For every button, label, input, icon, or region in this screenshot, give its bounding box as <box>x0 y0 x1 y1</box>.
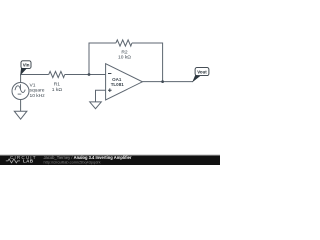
svg-text:LAB: LAB <box>23 159 34 164</box>
op-amp plus sign <box>108 88 112 92</box>
op-amp U1 triangle <box>106 64 143 100</box>
flag Vout pointer <box>193 76 200 82</box>
svg-text:10 kHz: 10 kHz <box>30 93 46 99</box>
svg-text:R1: R1 <box>54 81 61 87</box>
voltage source V1 circle <box>12 83 29 100</box>
svg-text:http://circuitlab.com/c5bq43pq: http://circuitlab.com/c5bq43pqdrk <box>44 159 101 164</box>
wire op-amp + input to ground <box>96 90 106 102</box>
wire V1 top stub <box>20 75 22 83</box>
wire feedback left vertical + top run to R2 <box>89 43 116 75</box>
wire op-amp output to Vout <box>142 81 193 83</box>
footer bar <box>0 154 220 156</box>
wire V1 bottom stub <box>20 100 22 112</box>
svg-text:V1: V1 <box>30 82 36 88</box>
ground (V1) <box>14 111 27 119</box>
flag Vin pointer <box>21 68 27 74</box>
op-amp minus sign <box>108 73 111 75</box>
node junction (feedback tap) <box>88 73 91 76</box>
svg-text:10 kΩ: 10 kΩ <box>118 54 131 60</box>
svg-text:Vout: Vout <box>197 70 207 75</box>
svg-text:square: square <box>30 88 45 94</box>
wire R1 to op-amp inverting input <box>65 74 106 76</box>
V1 waveform symbol <box>20 84 22 89</box>
svg-text:R2: R2 <box>121 49 128 55</box>
CircuitLab logo resistor zigzag <box>6 159 20 163</box>
svg-text:1 kΩ: 1 kΩ <box>52 87 63 93</box>
node junction (output tap) <box>161 80 164 83</box>
svg-text:TL081: TL081 <box>111 82 125 87</box>
wire Vin node to R1 <box>21 74 49 76</box>
svg-text:Vin: Vin <box>23 63 30 68</box>
resistor R2 <box>116 40 132 46</box>
flag Vin box <box>21 61 31 69</box>
resistor R1 <box>49 71 65 77</box>
ground (op-amp + input) <box>90 102 102 109</box>
wire R2 right run + feedback right vertical <box>132 43 163 82</box>
flag Vout box <box>195 68 209 76</box>
